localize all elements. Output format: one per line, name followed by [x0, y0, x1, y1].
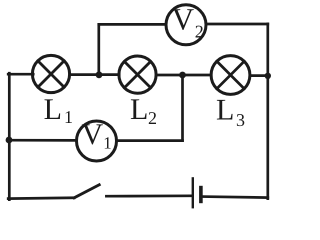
label V2 (inside voltmeter V2) [172, 2, 204, 42]
wire: V1 right horizontal [117, 139, 183, 142]
wire: L3 to right side [250, 74, 268, 77]
wire: top-left horizontal into L1 [8, 73, 33, 76]
wire: battery to bottom-right corner [203, 197, 268, 198]
wire: bottom-left horizontal to switch [8, 196, 74, 200]
wire: L1 to L2 [70, 73, 120, 76]
svg-text:2: 2 [148, 108, 157, 128]
svg-text:2: 2 [195, 21, 204, 41]
label L3 [216, 93, 245, 130]
switch S1 blade (open) [74, 185, 99, 198]
node: junction on left side for V1 tap [6, 137, 13, 144]
svg-text:V: V [82, 118, 104, 151]
lamp L1 [32, 55, 69, 92]
svg-text:1: 1 [64, 107, 73, 127]
wire: right vertical side [266, 24, 269, 199]
wire: V2 branch riser from junction [97, 24, 100, 74]
svg-text:L: L [130, 93, 148, 126]
wire: V1 left horizontal [9, 139, 77, 142]
voltmeter V1 [77, 121, 117, 161]
wire: V1 right riser up to junction [181, 75, 184, 141]
label L2 [130, 93, 157, 128]
wire: V2 left horizontal [99, 23, 166, 26]
node: junction at right side (V2 return) [265, 73, 271, 79]
wire: switch to battery [106, 194, 191, 197]
svg-text:V: V [172, 2, 195, 37]
svg-text:L: L [44, 93, 62, 126]
battery: short thick plate (negative) [199, 188, 203, 202]
node: junction of V2 tap between L1 and L2 [96, 71, 103, 78]
wire: L2 to L3 [156, 74, 211, 77]
svg-text:3: 3 [236, 110, 245, 130]
battery: long thin plate (positive) [192, 178, 194, 207]
label L1 [44, 93, 73, 127]
label V1 (inside voltmeter V1) [82, 118, 112, 153]
svg-text:1: 1 [103, 134, 112, 153]
node: junction of V1 right tap between L2 and L3 [179, 72, 186, 79]
voltmeter V2 [166, 5, 206, 45]
wire: V2 right horizontal [206, 23, 268, 26]
lamp L2 [119, 56, 156, 93]
lamp L3 [211, 56, 250, 95]
svg-text:L: L [216, 93, 234, 126]
wire: left vertical side [8, 73, 11, 199]
